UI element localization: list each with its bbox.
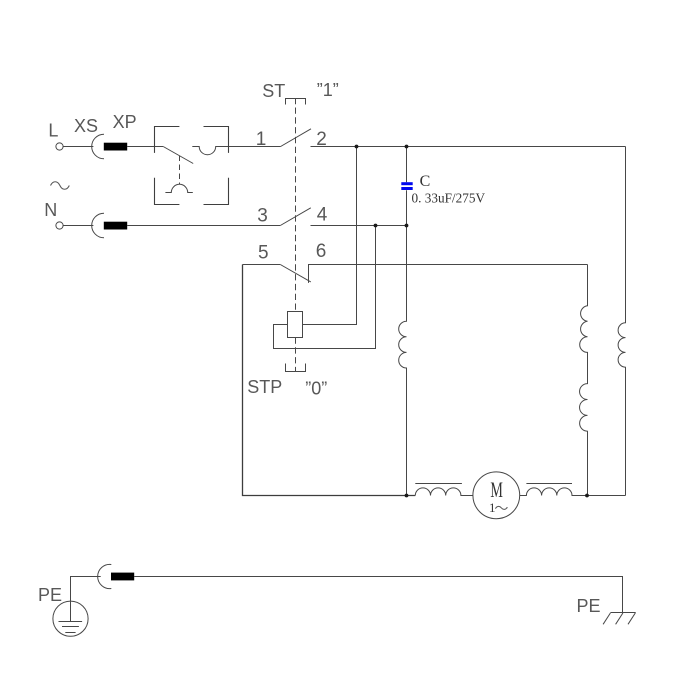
svg-text:0. 33uF/275V: 0. 33uF/275V [412, 192, 486, 207]
svg-text:N: N [44, 200, 57, 220]
svg-text:1: 1 [256, 129, 267, 150]
svg-text:M: M [490, 477, 503, 502]
svg-text:ST: ST [262, 81, 285, 101]
svg-text:3: 3 [257, 205, 268, 226]
svg-text:XP: XP [113, 112, 137, 132]
svg-text:C: C [420, 173, 431, 190]
svg-text:4: 4 [317, 205, 328, 226]
svg-text:”0”: ”0” [305, 378, 327, 398]
svg-text:1: 1 [489, 500, 496, 515]
svg-text:STP: STP [247, 377, 282, 397]
svg-text:5: 5 [258, 242, 269, 263]
svg-text:PE: PE [38, 585, 62, 605]
svg-text:L: L [48, 120, 58, 140]
svg-text:2: 2 [316, 129, 327, 150]
svg-text:”1”: ”1” [317, 80, 339, 100]
svg-text:PE: PE [577, 596, 601, 616]
svg-text:6: 6 [316, 241, 327, 262]
svg-text:XS: XS [74, 116, 98, 136]
